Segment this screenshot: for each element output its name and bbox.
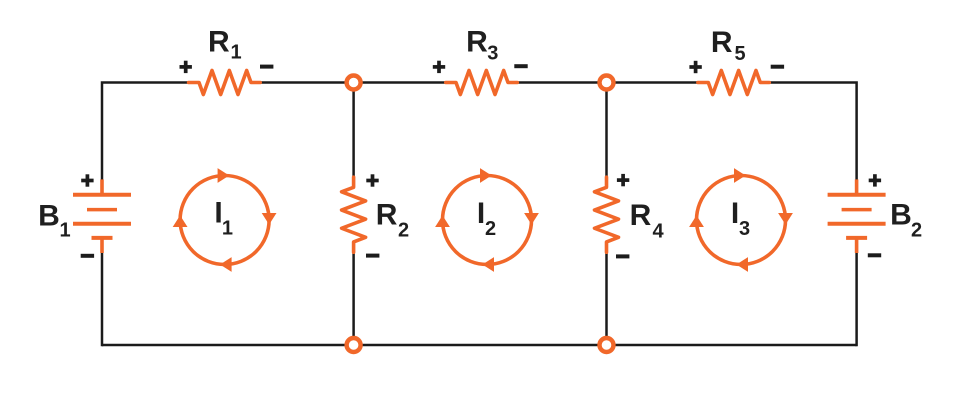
wire bottom rail	[102, 344, 857, 347]
polarity - of R5	[771, 65, 784, 69]
label B1	[38, 200, 70, 242]
wire right rail below B2	[855, 253, 858, 347]
svg-text:1: 1	[230, 42, 241, 64]
svg-text:4: 4	[652, 220, 664, 242]
svg-text:I: I	[731, 197, 739, 230]
node D (bottom right junction)	[600, 338, 614, 352]
label B2	[890, 199, 922, 242]
label I1	[214, 197, 233, 240]
polarity - of R4	[616, 254, 629, 258]
svg-text:I: I	[477, 197, 485, 230]
wire right-middle branch upper (node B to R4)	[605, 83, 608, 178]
wire top rail left segment	[102, 83, 189, 180]
wire top rail between R1 and R3	[260, 81, 446, 84]
mesh current loop I1	[173, 168, 277, 272]
label R4	[630, 199, 665, 242]
svg-text:R: R	[376, 199, 398, 232]
svg-text:R: R	[466, 26, 488, 59]
mesh current loop I2	[435, 168, 539, 272]
label I3	[731, 197, 750, 240]
wire top rail between R3 and R5	[517, 81, 698, 84]
polarity - of B2	[868, 253, 881, 257]
polarity + of B1	[81, 174, 93, 186]
polarity + of R2	[366, 174, 378, 186]
polarity + of R4	[617, 174, 629, 186]
svg-text:B: B	[890, 199, 912, 232]
node B (top right junction)	[600, 76, 614, 90]
label R1	[208, 26, 242, 64]
battery B1	[73, 179, 131, 253]
svg-text:1: 1	[222, 218, 233, 240]
svg-text:R: R	[711, 26, 733, 59]
wire middle branch upper (node A to R2)	[352, 83, 355, 178]
wire right-middle branch lower (R4 to node D)	[605, 242, 608, 345]
svg-text:2: 2	[398, 220, 409, 242]
wire left rail below B1	[101, 253, 104, 347]
label R3	[466, 26, 498, 65]
label R5	[711, 26, 746, 65]
label I2	[477, 197, 496, 240]
node A (top left junction)	[347, 76, 361, 90]
node C (bottom left junction)	[347, 338, 361, 352]
polarity + of R3	[433, 61, 445, 73]
resistor R1	[189, 71, 261, 95]
resistor R3	[446, 71, 518, 95]
polarity - of B1	[81, 254, 94, 258]
resistor R4	[595, 177, 619, 252]
svg-text:1: 1	[59, 219, 70, 241]
resistor R5	[698, 71, 769, 95]
svg-text:2: 2	[911, 220, 922, 242]
polarity - of R2	[366, 254, 379, 258]
polarity + of R1	[180, 61, 192, 73]
svg-text:5: 5	[734, 43, 745, 65]
polarity + of R5	[689, 61, 701, 73]
svg-text:R: R	[630, 199, 652, 232]
svg-text:2: 2	[485, 218, 496, 240]
svg-text:B: B	[38, 200, 60, 233]
mesh current loop I3	[689, 168, 793, 272]
polarity - of R1	[260, 65, 273, 69]
polarity + of B2	[869, 174, 881, 186]
polarity - of R3	[514, 64, 527, 68]
svg-text:R: R	[208, 26, 230, 59]
svg-text:3: 3	[487, 43, 498, 65]
svg-text:3: 3	[739, 218, 750, 240]
resistor R2	[342, 177, 366, 252]
wire middle branch lower (R2 to node C)	[352, 242, 355, 345]
battery B2	[828, 179, 886, 253]
wire top rail right segment	[769, 83, 856, 180]
label R2	[376, 199, 409, 242]
